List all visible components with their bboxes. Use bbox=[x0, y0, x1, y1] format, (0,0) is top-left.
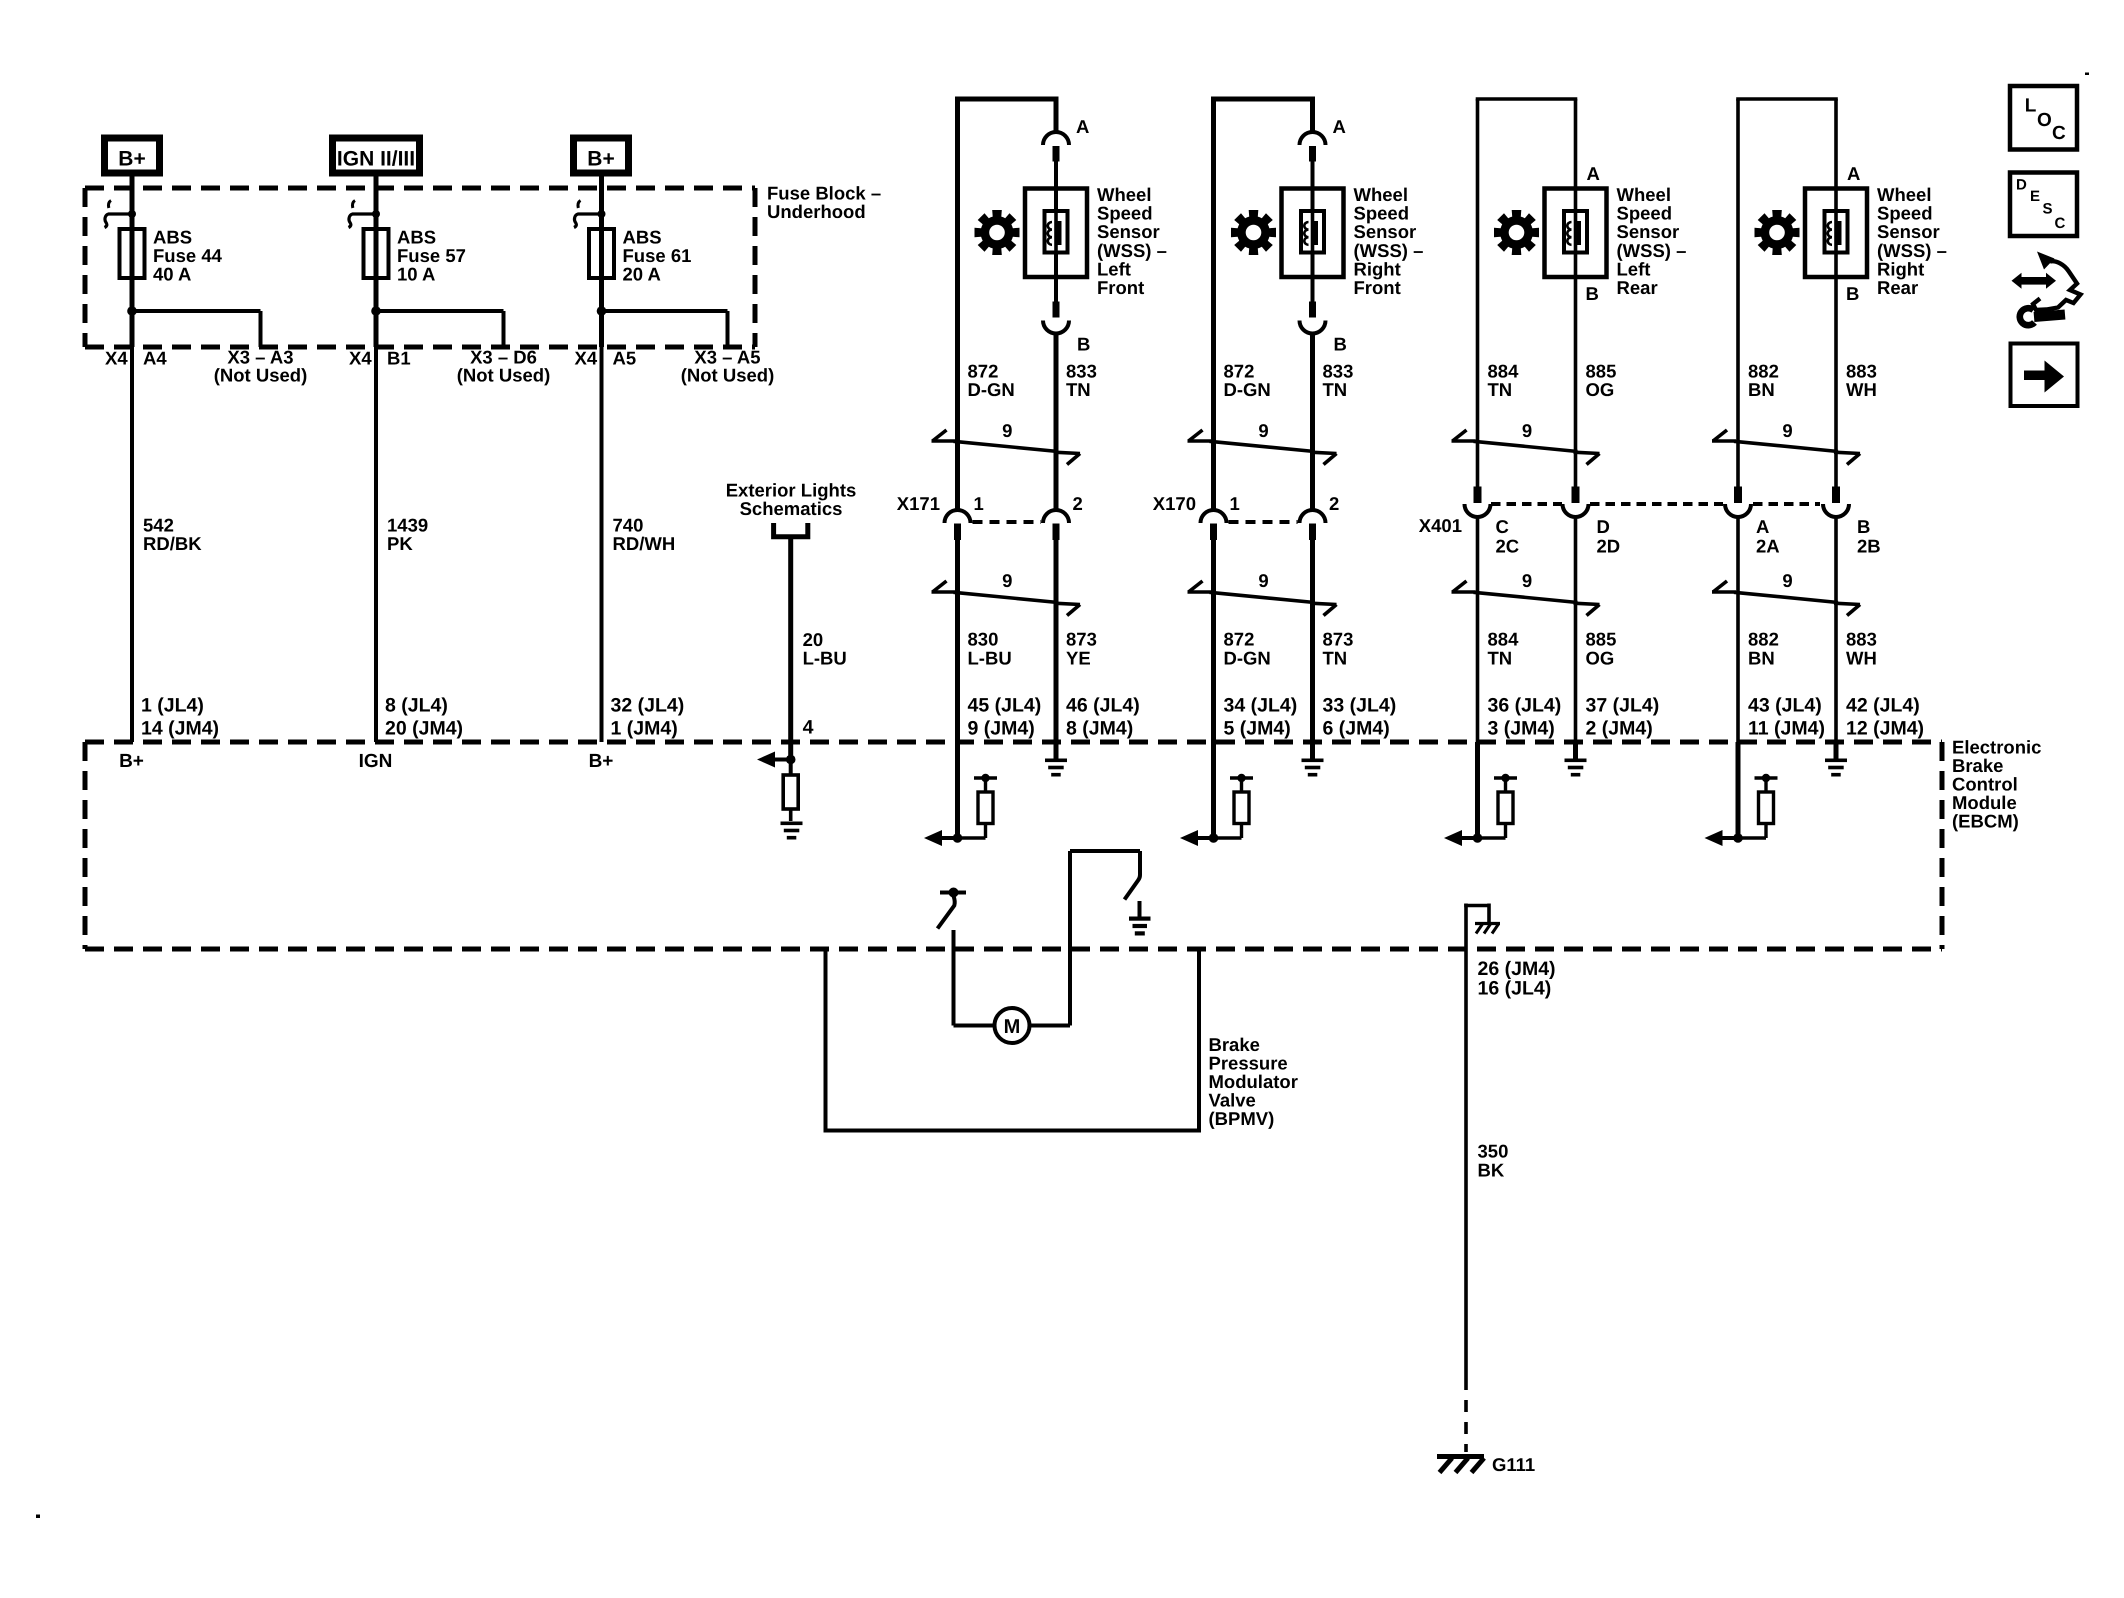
svg-text:45 (JL4): 45 (JL4) bbox=[968, 695, 1042, 717]
fuse 2 value label bbox=[397, 227, 466, 285]
EBCM internal sense resistor and arrow bbox=[1180, 742, 1253, 846]
svg-text:IGN: IGN bbox=[359, 751, 393, 772]
wire label 884 TN bbox=[1488, 361, 1520, 401]
svg-text:S: S bbox=[2043, 201, 2053, 218]
EBCM internal ground bbox=[1045, 742, 1067, 777]
EBCM pin 45 (JL4) / 9 (JM4) bbox=[968, 695, 1042, 740]
svg-text:830: 830 bbox=[968, 629, 999, 650]
internal net label B+ bbox=[589, 751, 614, 772]
ground wire 350 BK bbox=[1464, 949, 1468, 1452]
WSS connector pin B (terminal + socket) bbox=[1300, 302, 1326, 334]
pin label A bbox=[1587, 163, 1600, 184]
wire from power box 1 down through fuse block bbox=[130, 176, 135, 347]
svg-text:L-BU: L-BU bbox=[803, 648, 847, 669]
EBCM pin 43 (JL4) / 11 (JM4) bbox=[1748, 695, 1825, 740]
svg-text:TN: TN bbox=[1488, 648, 1513, 669]
branch wire to not-used terminal X3 – A3 bbox=[132, 311, 261, 347]
svg-text:D: D bbox=[1597, 516, 1610, 537]
svg-text:(Not Used): (Not Used) bbox=[214, 365, 308, 386]
pin label A bbox=[1076, 116, 1089, 137]
twisted pair marker upper bbox=[1452, 430, 1600, 465]
svg-text:TN: TN bbox=[1323, 379, 1348, 400]
wire label 1439 PK bbox=[387, 515, 428, 555]
Electronic Brake Control Module dashed border bbox=[85, 742, 1942, 949]
internal net label IGN bbox=[359, 751, 393, 772]
WSS hat wire top loop bbox=[1476, 97, 1578, 101]
svg-text:42 (JL4): 42 (JL4) bbox=[1846, 695, 1920, 717]
X401 connector dashed link bbox=[1491, 502, 1820, 506]
EBCM pin 1 (JL4) / 14 (JM4) bbox=[141, 695, 219, 740]
connector labels X4 A4 X3 – A3 bbox=[105, 347, 307, 386]
svg-text:X401: X401 bbox=[1419, 515, 1462, 536]
svg-text:B: B bbox=[1846, 283, 1859, 304]
BPMV label bbox=[1209, 1034, 1298, 1129]
svg-text:46 (JL4): 46 (JL4) bbox=[1066, 695, 1140, 717]
EBCM pin 46 (JL4) / 8 (JM4) bbox=[1066, 695, 1140, 740]
stray mark top right bbox=[2085, 73, 2089, 76]
Brake Pressure Modulator Valve box bbox=[826, 949, 1200, 1131]
svg-text:883: 883 bbox=[1846, 629, 1877, 650]
EBCM internal ground bbox=[1565, 742, 1587, 777]
WSS left wire bbox=[1736, 99, 1740, 742]
pump motor M1 bbox=[995, 1008, 1030, 1043]
svg-text:2A: 2A bbox=[1756, 536, 1780, 557]
svg-text:Front: Front bbox=[1354, 277, 1401, 298]
stray mark bottom left bbox=[36, 1515, 40, 1519]
WSS connector pin B (terminal + socket) bbox=[1043, 302, 1069, 334]
svg-text:RD/WH: RD/WH bbox=[613, 533, 676, 554]
EBCM pin 33 (JL4) / 6 (JM4) bbox=[1323, 695, 1397, 740]
twisted pair size label 9 bbox=[1522, 420, 1532, 441]
svg-text:B+: B+ bbox=[119, 751, 144, 772]
pump motor relay switch bbox=[938, 888, 967, 929]
junction node below fuse 1 bbox=[127, 306, 137, 316]
connector pin 2 bbox=[1073, 493, 1083, 514]
svg-text:873: 873 bbox=[1066, 629, 1097, 650]
svg-text:14 (JM4): 14 (JM4) bbox=[141, 718, 219, 740]
svg-text:9: 9 bbox=[1002, 420, 1012, 441]
wire label 542 RD/BK bbox=[143, 515, 202, 555]
EBCM pin 8 (JL4) / 20 (JM4) bbox=[385, 695, 463, 740]
svg-text:8 (JL4): 8 (JL4) bbox=[385, 695, 448, 717]
svg-text:A: A bbox=[1587, 163, 1600, 184]
svg-text:B+: B+ bbox=[589, 751, 614, 772]
WSS sensor box bbox=[1282, 189, 1344, 278]
svg-text:350: 350 bbox=[1478, 1141, 1509, 1162]
WSS pickup coil element bbox=[1045, 211, 1068, 253]
wire 740 RD/WH down to EBCM bbox=[600, 347, 604, 742]
svg-text:X170: X170 bbox=[1153, 493, 1196, 514]
fuse block label bbox=[767, 183, 881, 223]
WSS sensor box bbox=[1545, 189, 1607, 278]
fuse F57 (ABS Fuse 57 10 A) bbox=[364, 229, 389, 278]
clip symbol at fuse 3 bbox=[574, 201, 606, 228]
svg-text:B: B bbox=[1077, 334, 1090, 355]
svg-text:B: B bbox=[1586, 283, 1599, 304]
twisted pair size label 9 bbox=[1782, 420, 1792, 441]
svg-text:A: A bbox=[1756, 516, 1769, 537]
pin label A bbox=[1333, 116, 1346, 137]
internal net label B+ bbox=[119, 751, 144, 772]
WSS left wire bbox=[1476, 99, 1480, 742]
twisted pair size label 9 bbox=[1782, 570, 1792, 591]
svg-text:(BPMV): (BPMV) bbox=[1209, 1108, 1275, 1129]
svg-text:9: 9 bbox=[1782, 420, 1792, 441]
wire label 882 BN bbox=[1748, 629, 1779, 669]
svg-text:(Not Used): (Not Used) bbox=[681, 365, 775, 386]
svg-text:D-GN: D-GN bbox=[1224, 648, 1271, 669]
svg-text:B: B bbox=[1857, 516, 1870, 537]
twisted pair marker upper bbox=[1712, 430, 1860, 465]
WSS name label bbox=[1617, 184, 1687, 298]
wire label 885 OG bbox=[1586, 629, 1617, 669]
svg-text:G111: G111 bbox=[1492, 1454, 1535, 1475]
WSS tone ring gear bbox=[1494, 210, 1539, 255]
internal junction with left arrow at pin 4 bbox=[757, 752, 796, 768]
wire label 883 WH bbox=[1846, 361, 1877, 401]
DESC navigation icon bbox=[2010, 173, 2077, 237]
in-line connector X170 bbox=[1201, 510, 1326, 540]
connector label X170 bbox=[1153, 493, 1196, 514]
svg-text:9: 9 bbox=[1782, 570, 1792, 591]
off-page connector bracket bbox=[774, 523, 808, 537]
twisted pair size label 9 bbox=[1002, 570, 1012, 591]
svg-text:2: 2 bbox=[1073, 493, 1083, 514]
twisted pair marker lower bbox=[1452, 581, 1600, 616]
svg-text:9: 9 bbox=[1258, 420, 1268, 441]
connector pin B/2B bbox=[1857, 516, 1881, 557]
twisted pair size label 9 bbox=[1002, 420, 1012, 441]
connector labels X4 B1 X3 – D6 bbox=[349, 347, 550, 386]
svg-text:D-GN: D-GN bbox=[1224, 379, 1271, 400]
WSS hat wire top loop bbox=[955, 97, 1059, 102]
twisted pair marker lower bbox=[1712, 581, 1860, 616]
power feed B+ box 1 bbox=[101, 135, 163, 177]
svg-text:Rear: Rear bbox=[1877, 277, 1918, 298]
svg-text:4: 4 bbox=[803, 717, 814, 739]
svg-text:11 (JM4): 11 (JM4) bbox=[1748, 718, 1825, 740]
WSS right wire bbox=[1574, 99, 1578, 742]
WSS right wire bbox=[1054, 99, 1059, 742]
svg-text:D-GN: D-GN bbox=[968, 379, 1015, 400]
internal ground at pin 4 bbox=[781, 822, 803, 840]
EBCM label bbox=[1952, 737, 2041, 832]
svg-text:L: L bbox=[2025, 95, 2037, 116]
junction node below fuse 2 bbox=[371, 306, 381, 316]
WSS hat wire top loop bbox=[1736, 97, 1838, 101]
svg-text:40 A: 40 A bbox=[153, 264, 191, 285]
EBCM pin 4 bbox=[803, 717, 814, 739]
svg-text:3 (JM4): 3 (JM4) bbox=[1488, 718, 1555, 740]
in-line connector X171 bbox=[945, 510, 1070, 540]
in-line connector X401 terminals A/B bbox=[1725, 487, 1849, 518]
wire label 873 YE bbox=[1066, 629, 1097, 669]
svg-text:X4: X4 bbox=[105, 348, 128, 369]
svg-text:872: 872 bbox=[1224, 629, 1255, 650]
svg-text:M: M bbox=[1004, 1016, 1021, 1038]
wire from power box 2 down through fuse block bbox=[374, 176, 379, 347]
svg-text:O: O bbox=[2037, 110, 2052, 131]
svg-text:YE: YE bbox=[1066, 648, 1091, 669]
WSS name label bbox=[1877, 184, 1947, 298]
pin label A bbox=[1847, 163, 1860, 184]
wire label 884 TN bbox=[1488, 629, 1520, 669]
wire from switch to pump motor bbox=[954, 930, 995, 1026]
svg-text:Schematics: Schematics bbox=[740, 498, 843, 519]
connector label X171 bbox=[897, 493, 940, 514]
svg-text:WH: WH bbox=[1846, 648, 1877, 669]
fuse 3 value label bbox=[623, 227, 692, 285]
off-page reference: Exterior Lights Schematics bbox=[726, 480, 857, 520]
svg-text:12 (JM4): 12 (JM4) bbox=[1846, 718, 1924, 740]
EBCM internal chassis ground tap bbox=[1464, 904, 1500, 950]
branch wire to not-used terminal X3 – A5 bbox=[602, 311, 728, 347]
svg-text:2 (JM4): 2 (JM4) bbox=[1586, 718, 1653, 740]
svg-text:(EBCM): (EBCM) bbox=[1952, 811, 2019, 832]
svg-text:PK: PK bbox=[387, 533, 413, 554]
WSS name label bbox=[1097, 184, 1167, 298]
svg-text:BK: BK bbox=[1478, 1160, 1505, 1181]
junction node below fuse 3 bbox=[597, 306, 607, 316]
WSS tone ring gear bbox=[975, 210, 1020, 255]
svg-text:WH: WH bbox=[1846, 379, 1877, 400]
svg-text:16 (JL4): 16 (JL4) bbox=[1478, 978, 1552, 1000]
svg-text:32 (JL4): 32 (JL4) bbox=[611, 695, 685, 717]
svg-text:9: 9 bbox=[1522, 570, 1532, 591]
svg-text:X4: X4 bbox=[575, 348, 598, 369]
svg-text:1 (JM4): 1 (JM4) bbox=[611, 718, 678, 740]
wire label 872 D-GN bbox=[1224, 361, 1271, 401]
svg-text:9: 9 bbox=[1522, 420, 1532, 441]
wire label 885 OG bbox=[1586, 361, 1617, 401]
svg-text:L-BU: L-BU bbox=[968, 648, 1012, 669]
wire label 350 BK bbox=[1478, 1141, 1509, 1181]
svg-text:TN: TN bbox=[1488, 379, 1513, 400]
clip symbol at fuse 2 bbox=[349, 201, 381, 228]
pin label B bbox=[1846, 283, 1859, 304]
connector labels X4 A5 X3 – A5 bbox=[575, 347, 775, 386]
svg-text:43 (JL4): 43 (JL4) bbox=[1748, 695, 1822, 717]
EBCM internal sense resistor and arrow bbox=[1444, 742, 1517, 846]
svg-text:1: 1 bbox=[974, 493, 984, 514]
ground G111 bbox=[1437, 1457, 1484, 1473]
WSS left wire bbox=[955, 99, 960, 742]
twisted pair marker lower bbox=[932, 581, 1081, 616]
pin label B bbox=[1334, 334, 1347, 355]
wire from power box 3 down through fuse block bbox=[599, 176, 604, 347]
svg-text:37 (JL4): 37 (JL4) bbox=[1586, 695, 1660, 717]
WSS pickup coil element bbox=[1564, 211, 1587, 253]
svg-text:Front: Front bbox=[1097, 277, 1144, 298]
WSS pickup coil element bbox=[1825, 211, 1848, 253]
LOC navigation icon bbox=[2010, 86, 2077, 150]
connector pin A/2A bbox=[1756, 516, 1780, 557]
ground label G111 bbox=[1492, 1454, 1535, 1475]
connector pin D/2D bbox=[1597, 516, 1621, 557]
valve solenoid switch bbox=[1125, 851, 1141, 900]
svg-text:A4: A4 bbox=[143, 348, 167, 369]
internal ground at valve switch bbox=[1129, 901, 1151, 936]
WSS name label bbox=[1354, 184, 1424, 298]
twisted pair marker upper bbox=[1188, 430, 1337, 465]
svg-text:Rear: Rear bbox=[1617, 277, 1658, 298]
wire label 872 D-GN bbox=[1224, 629, 1271, 669]
svg-text:B+: B+ bbox=[118, 148, 145, 171]
wire label 873 TN bbox=[1323, 629, 1354, 669]
svg-text:9 (JM4): 9 (JM4) bbox=[968, 718, 1035, 740]
twisted pair size label 9 bbox=[1258, 420, 1268, 441]
svg-text:873: 873 bbox=[1323, 629, 1354, 650]
svg-text:34 (JL4): 34 (JL4) bbox=[1224, 695, 1298, 717]
svg-text:B1: B1 bbox=[387, 348, 411, 369]
svg-text:OG: OG bbox=[1586, 379, 1615, 400]
svg-text:20 (JM4): 20 (JM4) bbox=[385, 718, 463, 740]
wire label 872 D-GN bbox=[968, 361, 1015, 401]
wire label 833 TN bbox=[1323, 361, 1354, 401]
in-line connector X401 terminals C/D bbox=[1465, 487, 1589, 518]
svg-text:X4: X4 bbox=[349, 348, 372, 369]
wire 20 L-BU to EBCM pin 4 bbox=[788, 539, 793, 760]
branch wire to not-used terminal X3 – D6 bbox=[376, 311, 504, 347]
wire label 830 L-BU bbox=[968, 629, 1012, 669]
svg-text:885: 885 bbox=[1586, 629, 1617, 650]
forward arrow icon bbox=[2011, 344, 2078, 407]
svg-text:2: 2 bbox=[1329, 493, 1339, 514]
clip symbol at fuse 1 bbox=[105, 201, 137, 228]
WSS hat wire top loop bbox=[1211, 97, 1315, 102]
fuse block underhood dashed border bbox=[85, 188, 755, 347]
wire 542 RD/BK down to EBCM bbox=[130, 347, 134, 742]
connector pin 1 bbox=[974, 493, 984, 514]
EBCM internal ground bbox=[1302, 742, 1324, 777]
pin label B bbox=[1077, 334, 1090, 355]
WSS connector pin A (socket + terminal) bbox=[1043, 132, 1069, 162]
svg-text:C: C bbox=[2052, 123, 2066, 144]
EBCM pin 42 (JL4) / 12 (JM4) bbox=[1846, 695, 1924, 740]
svg-text:9: 9 bbox=[1002, 570, 1012, 591]
svg-text:2C: 2C bbox=[1496, 536, 1520, 557]
svg-text:X171: X171 bbox=[897, 493, 940, 514]
connector pin 2 bbox=[1329, 493, 1339, 514]
wire label 740 RD/WH bbox=[613, 515, 676, 555]
svg-text:A5: A5 bbox=[613, 348, 637, 369]
wire label 833 TN bbox=[1066, 361, 1097, 401]
svg-text:A: A bbox=[1847, 163, 1860, 184]
svg-text:9: 9 bbox=[1258, 570, 1268, 591]
svg-text:B: B bbox=[1334, 334, 1347, 355]
svg-text:36 (JL4): 36 (JL4) bbox=[1488, 695, 1562, 717]
WSS tone ring gear bbox=[1231, 210, 1276, 255]
svg-text:10 A: 10 A bbox=[397, 264, 435, 285]
svg-text:2B: 2B bbox=[1857, 536, 1881, 557]
WSS sensor box bbox=[1025, 189, 1087, 278]
svg-text:C: C bbox=[2055, 215, 2066, 232]
svg-text:8 (JM4): 8 (JM4) bbox=[1066, 718, 1133, 740]
WSS pickup coil element bbox=[1301, 211, 1324, 253]
svg-text:884: 884 bbox=[1488, 629, 1520, 650]
wire label 882 BN bbox=[1748, 361, 1779, 401]
svg-text:RD/BK: RD/BK bbox=[143, 533, 202, 554]
svg-text:BN: BN bbox=[1748, 379, 1775, 400]
svg-text:2D: 2D bbox=[1597, 536, 1621, 557]
svg-text:A: A bbox=[1333, 116, 1346, 137]
EBCM internal sense resistor and arrow bbox=[1705, 742, 1778, 846]
wire 1439 PK down to EBCM bbox=[374, 347, 378, 742]
EBCM pin 26 (JM4) / 16 (JL4) bbox=[1478, 958, 1556, 1000]
connector label X401 bbox=[1419, 515, 1462, 536]
svg-text:C: C bbox=[1496, 516, 1509, 537]
svg-text:882: 882 bbox=[1748, 629, 1779, 650]
svg-text:E: E bbox=[2030, 188, 2040, 205]
svg-text:A: A bbox=[1076, 116, 1089, 137]
internal resistor at pin 4 bbox=[783, 760, 798, 822]
wire label 20 L-BU bbox=[803, 629, 847, 669]
svg-text:20 A: 20 A bbox=[623, 264, 661, 285]
connector pin 1 bbox=[1230, 493, 1240, 514]
svg-text:33 (JL4): 33 (JL4) bbox=[1323, 695, 1397, 717]
wire label 883 WH bbox=[1846, 629, 1877, 669]
twisted pair marker upper bbox=[932, 430, 1081, 465]
EBCM internal sense resistor and arrow bbox=[924, 742, 997, 846]
diagnostic tools icon bbox=[2012, 252, 2081, 326]
twisted pair marker lower bbox=[1188, 581, 1337, 616]
fuse 1 value label bbox=[153, 227, 223, 285]
WSS right wire bbox=[1310, 99, 1315, 742]
EBCM internal ground bbox=[1825, 742, 1847, 777]
svg-text:B+: B+ bbox=[587, 148, 614, 171]
power feed IGN II/III box bbox=[329, 135, 423, 177]
svg-text:6 (JM4): 6 (JM4) bbox=[1323, 718, 1390, 740]
svg-text:D: D bbox=[2016, 177, 2027, 194]
WSS right wire bbox=[1834, 99, 1838, 742]
WSS connector pin A (socket + terminal) bbox=[1300, 132, 1326, 162]
svg-text:TN: TN bbox=[1066, 379, 1091, 400]
fuse F44 (ABS Fuse 44 40 A) bbox=[120, 229, 145, 278]
svg-text:1 (JL4): 1 (JL4) bbox=[141, 695, 204, 717]
twisted pair size label 9 bbox=[1522, 570, 1532, 591]
svg-text:TN: TN bbox=[1323, 648, 1348, 669]
EBCM pin 36 (JL4) / 3 (JM4) bbox=[1488, 695, 1562, 740]
WSS left wire bbox=[1211, 99, 1216, 742]
svg-text:(Not Used): (Not Used) bbox=[457, 365, 551, 386]
svg-text:Underhood: Underhood bbox=[767, 201, 866, 222]
svg-text:OG: OG bbox=[1586, 648, 1615, 669]
WSS tone ring gear bbox=[1755, 210, 1800, 255]
svg-text:IGN II/III: IGN II/III bbox=[337, 148, 415, 171]
power feed B+ box 2 bbox=[570, 135, 632, 177]
EBCM pin 32 (JL4) / 1 (JM4) bbox=[611, 695, 685, 740]
pin label B bbox=[1586, 283, 1599, 304]
EBCM pin 37 (JL4) / 2 (JM4) bbox=[1586, 695, 1660, 740]
EBCM pin 34 (JL4) / 5 (JM4) bbox=[1224, 695, 1298, 740]
twisted pair size label 9 bbox=[1258, 570, 1268, 591]
svg-text:5 (JM4): 5 (JM4) bbox=[1224, 718, 1291, 740]
WSS sensor box bbox=[1805, 189, 1867, 278]
svg-text:1: 1 bbox=[1230, 493, 1240, 514]
fuse F61 (ABS Fuse 61 20 A) bbox=[589, 229, 614, 278]
wire from motor to valve switch bbox=[1030, 851, 1141, 1026]
svg-text:BN: BN bbox=[1748, 648, 1775, 669]
connector pin C/2C bbox=[1496, 516, 1520, 557]
